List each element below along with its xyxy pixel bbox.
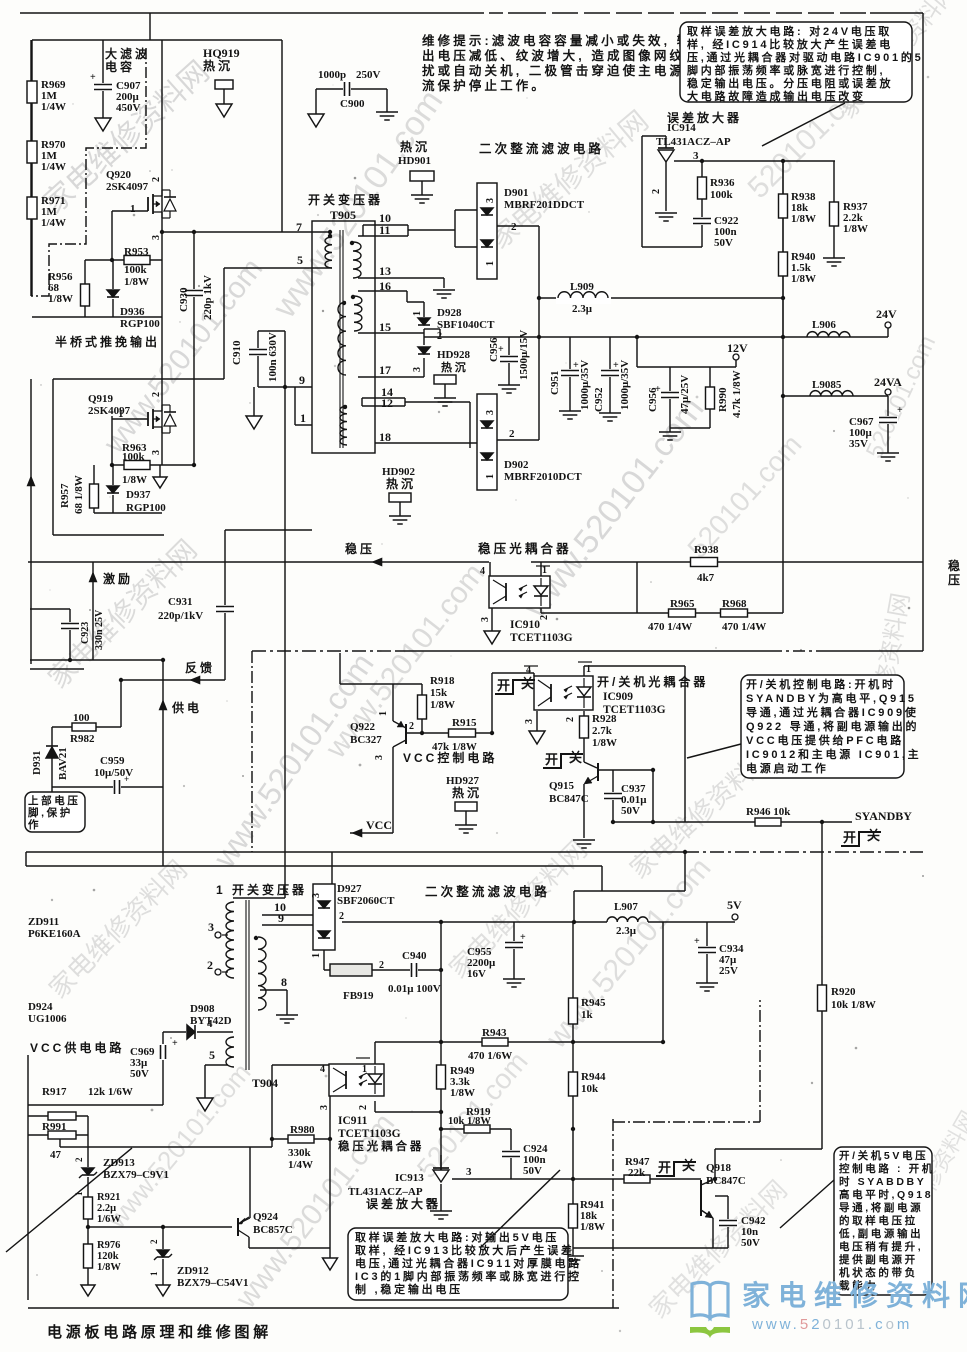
svg-text:www.520101.com: www.520101.com bbox=[539, 852, 717, 1055]
wire C952 column bbox=[609, 337, 611, 413]
svg-text:1/4W: 1/4W bbox=[41, 161, 66, 173]
svg-text:导通,将副电源: 导通,将副电源 bbox=[839, 1201, 923, 1214]
svg-text:C923: C923 bbox=[80, 622, 91, 644]
svg-text:SBF1040CT: SBF1040CT bbox=[437, 319, 495, 331]
wire L906 24V row bbox=[783, 336, 888, 338]
capacitor C956b bbox=[660, 391, 680, 399]
resistor R919 bbox=[464, 1125, 490, 1133]
svg-text:4: 4 bbox=[207, 1018, 213, 1030]
wire IC909 box right x685 bbox=[684, 666, 686, 822]
scan noise speckles bbox=[317, 214, 319, 216]
wire secondary rail y337 bbox=[424, 336, 783, 338]
resistor R920 bbox=[818, 985, 827, 1011]
capacitor C910 bbox=[248, 348, 268, 356]
resistor R947 bbox=[624, 1175, 650, 1183]
wire IC911 pin4 loop bbox=[272, 1064, 330, 1066]
svg-text:1/8W: 1/8W bbox=[843, 223, 868, 235]
svg-text:0.01μ 100V: 0.01μ 100V bbox=[388, 983, 441, 995]
svg-text:上部电压: 上部电压 bbox=[28, 794, 80, 807]
svg-text:1: 1 bbox=[300, 411, 306, 425]
svg-text:R991: R991 bbox=[42, 1121, 66, 1133]
svg-text:8: 8 bbox=[281, 975, 287, 989]
wire D927 pin3 riser bbox=[331, 852, 333, 884]
svg-text:1/6W: 1/6W bbox=[97, 1214, 121, 1225]
svg-text:二次整流滤波电路: 二次整流滤波电路 bbox=[425, 884, 550, 899]
svg-text:1/4W: 1/4W bbox=[41, 101, 66, 113]
svg-text:IC910: IC910 bbox=[510, 619, 540, 631]
resistor R936 bbox=[698, 177, 707, 199]
svg-text:脚内部振荡频率或脉宽进行控制,: 脚内部振荡频率或脉宽进行控制, bbox=[687, 63, 885, 77]
resistor R970 bbox=[27, 141, 37, 163]
svg-text:2: 2 bbox=[151, 392, 162, 397]
wire pin18 row bbox=[375, 442, 477, 444]
svg-text:1/8W: 1/8W bbox=[450, 1087, 475, 1099]
wire R938/R940 column bbox=[782, 161, 784, 337]
svg-text:大电路故障造成输出电压改变: 大电路故障造成输出电压改变 bbox=[687, 89, 866, 103]
svg-text:家电维修资料网: 家电维修资料网 bbox=[742, 1279, 967, 1311]
svg-text:1500μ/15V: 1500μ/15V bbox=[518, 330, 530, 380]
svg-text:D928: D928 bbox=[437, 307, 462, 319]
svg-text:2: 2 bbox=[565, 717, 576, 722]
svg-text:HD901: HD901 bbox=[398, 155, 431, 167]
capacitor C955 bbox=[504, 941, 524, 949]
wire R920 column x822 bbox=[821, 822, 823, 1149]
svg-text:2.3μ: 2.3μ bbox=[616, 925, 637, 937]
wire T904 pin10 row bbox=[262, 914, 313, 916]
capacitor C907 bbox=[93, 83, 113, 91]
wire 供电 column x163 bbox=[162, 660, 164, 866]
wire L909 row y298 bbox=[539, 297, 783, 299]
svg-text:120k: 120k bbox=[97, 1251, 119, 1262]
svg-text:9: 9 bbox=[299, 373, 305, 387]
svg-text:www.520101.com: www.520101.com bbox=[206, 646, 381, 874]
svg-text:220p 1kV: 220p 1kV bbox=[202, 275, 214, 320]
dash-dot boundary top-left bbox=[31, 48, 146, 296]
wire pin9/1 step bbox=[294, 387, 296, 425]
svg-text:稳压光耦合器: 稳压光耦合器 bbox=[478, 541, 572, 556]
svg-text:R921: R921 bbox=[97, 1192, 120, 1203]
svg-text:R945: R945 bbox=[581, 997, 606, 1009]
wire T905 pin5 drop x224 bbox=[223, 268, 225, 379]
wire y891 row bbox=[574, 890, 685, 892]
wire 激励 column x93 bbox=[92, 562, 94, 660]
capacitor C942 bbox=[718, 1219, 738, 1227]
capacitor C931 bbox=[215, 605, 235, 613]
wire C967 column bbox=[887, 396, 889, 453]
svg-text:1/4W: 1/4W bbox=[41, 217, 66, 229]
svg-text:C940: C940 bbox=[402, 950, 427, 962]
heatsink HD927 bbox=[455, 802, 477, 811]
resistor R953 bbox=[124, 256, 150, 265]
svg-text:3: 3 bbox=[311, 893, 322, 898]
wire FB919 row y970 bbox=[324, 969, 441, 971]
diode D902 package bbox=[477, 394, 497, 490]
svg-text:4: 4 bbox=[526, 665, 531, 676]
svg-text:4: 4 bbox=[320, 1064, 325, 1075]
svg-text:3: 3 bbox=[412, 367, 423, 372]
T905 winding pins right: 10/11 step bbox=[363, 224, 408, 226]
svg-text:稳定输出电压。分压电阻或误差放: 稳定输出电压。分压电阻或误差放 bbox=[687, 76, 893, 90]
svg-text:www.520101.com: www.520101.com bbox=[101, 1057, 257, 1234]
diode D901 d1 bbox=[480, 207, 494, 217]
svg-text:VCC供电电路: VCC供电电路 bbox=[30, 1040, 124, 1055]
svg-text:15k: 15k bbox=[430, 687, 448, 699]
svg-text:二次整流滤波电路: 二次整流滤波电路 bbox=[479, 141, 604, 156]
svg-text:BZX79–C54V1: BZX79–C54V1 bbox=[177, 1277, 249, 1289]
transistor Q919 mosfet bbox=[147, 412, 149, 426]
svg-text:+: + bbox=[694, 936, 700, 947]
capacitor C952 bbox=[600, 369, 620, 377]
svg-text:1/8W: 1/8W bbox=[791, 213, 816, 225]
wire C931 column x225 bbox=[224, 530, 226, 680]
wire C969 column bbox=[162, 1032, 164, 1105]
svg-text:1: 1 bbox=[118, 408, 124, 420]
resistor R917 bbox=[48, 1112, 76, 1120]
svg-text:R965: R965 bbox=[670, 598, 695, 610]
svg-text:样, 经IC914比较放大产生误差电: 样, 经IC914比较放大产生误差电 bbox=[687, 37, 893, 51]
svg-text:2.3μ: 2.3μ bbox=[572, 303, 593, 315]
svg-text:13: 13 bbox=[379, 264, 391, 278]
svg-text:制 ,稳定输出电压: 制 ,稳定输出电压 bbox=[355, 1282, 463, 1296]
resistor R937 bbox=[830, 202, 839, 226]
diode D927 d1 bbox=[317, 900, 331, 910]
svg-text:电源板电路原理和维修图解: 电源板电路原理和维修图解 bbox=[47, 1323, 272, 1341]
wire R936 column bbox=[701, 161, 703, 247]
svg-text:47: 47 bbox=[50, 1149, 62, 1161]
wire Q924 collector bbox=[248, 1237, 250, 1248]
svg-text:P6KE160A: P6KE160A bbox=[28, 928, 81, 940]
main section divider line y651 bbox=[252, 650, 395, 652]
svg-text:电压稍有提升,: 电压稍有提升, bbox=[839, 1240, 923, 1253]
svg-text:3: 3 bbox=[485, 410, 496, 415]
svg-text:3: 3 bbox=[208, 920, 214, 934]
wire R918 column bbox=[421, 684, 423, 733]
svg-text:VCC控制电路: VCC控制电路 bbox=[403, 750, 497, 765]
svg-text:误差放大器: 误差放大器 bbox=[667, 110, 742, 125]
svg-text:2.7k: 2.7k bbox=[592, 725, 613, 737]
svg-text:IC913: IC913 bbox=[395, 1172, 424, 1184]
long line y866 bbox=[26, 865, 602, 867]
svg-text:维修提示:滤波电容容量减小或失效, 输: 维修提示:滤波电容容量减小或失效, 输 bbox=[422, 33, 692, 48]
svg-text:35V: 35V bbox=[849, 438, 868, 450]
wire bottom of Q920 cell bbox=[32, 316, 162, 318]
wire IC910 pin2 to y613 bbox=[540, 608, 542, 613]
node A wire y232 Q920 source to T905 pin7 bbox=[162, 231, 330, 233]
wire Q922 collector bbox=[392, 747, 394, 833]
svg-text:BAV21: BAV21 bbox=[57, 747, 69, 780]
svg-text:R918: R918 bbox=[430, 675, 455, 687]
wire y660 row bbox=[30, 659, 163, 661]
svg-text:50V: 50V bbox=[523, 1165, 542, 1177]
arrow 激励 up bbox=[89, 572, 97, 582]
svg-text:IC3的1脚内部振荡频率或脉宽进行控: IC3的1脚内部振荡频率或脉宽进行控 bbox=[355, 1269, 582, 1283]
svg-text:取样误差放大电路:对输出5V电压: 取样误差放大电路:对输出5V电压 bbox=[355, 1230, 559, 1244]
svg-text:电源启动工作: 电源启动工作 bbox=[746, 761, 829, 775]
svg-text:BC847C: BC847C bbox=[706, 1175, 746, 1187]
resistor R943 bbox=[482, 1038, 508, 1046]
wire R945/R944/R941 column x573 bbox=[572, 922, 574, 1256]
svg-text:Q922: Q922 bbox=[350, 721, 376, 733]
svg-text:100k: 100k bbox=[124, 264, 148, 276]
svg-text:2: 2 bbox=[358, 1105, 369, 1110]
svg-text:2: 2 bbox=[149, 1239, 159, 1244]
svg-text:11: 11 bbox=[379, 223, 390, 237]
wire IC910 pin4 drop bbox=[489, 562, 491, 576]
svg-text:+: + bbox=[520, 932, 526, 943]
diode D927 package bbox=[313, 884, 335, 950]
heatsink HD901 bbox=[410, 171, 434, 181]
transistor Q915 npn bbox=[597, 763, 599, 781]
wire D936 column bbox=[112, 260, 114, 317]
svg-text:50V: 50V bbox=[714, 237, 733, 249]
capacitor C930 bbox=[184, 289, 204, 297]
svg-text:2: 2 bbox=[74, 1157, 84, 1162]
svg-text:100k: 100k bbox=[122, 451, 146, 463]
svg-text:5V: 5V bbox=[727, 898, 742, 912]
svg-text:R968: R968 bbox=[722, 598, 747, 610]
svg-text:R980: R980 bbox=[290, 1124, 315, 1136]
svg-text:www.520101.com: www.520101.com bbox=[751, 1316, 912, 1333]
wire 24VA row y396 bbox=[783, 395, 888, 397]
svg-text:时 SYABDBY: 时 SYABDBY bbox=[839, 1175, 926, 1188]
capacitor C937 bbox=[603, 792, 623, 800]
svg-text:R946 10k: R946 10k bbox=[746, 806, 791, 818]
wire x783 drop 562-613 bbox=[782, 562, 784, 613]
wire IC909 pin1 up bbox=[583, 666, 585, 676]
svg-text:L907: L907 bbox=[614, 901, 638, 913]
tip box 5V error amp bbox=[348, 1228, 568, 1300]
arrow 供电 up bbox=[159, 700, 167, 710]
wire SYANDBY row y822 bbox=[613, 821, 852, 823]
resistor R982 bbox=[72, 723, 96, 731]
pointer line tip4 bbox=[480, 1170, 560, 1248]
svg-text:D931: D931 bbox=[31, 751, 43, 775]
wire Q919 gate bbox=[112, 418, 148, 420]
wire R928 column bbox=[583, 711, 585, 762]
wire T905 pin9 row y387 bbox=[258, 386, 312, 388]
svg-text:450V: 450V bbox=[116, 102, 141, 114]
svg-text:15: 15 bbox=[379, 320, 391, 334]
svg-text:1k: 1k bbox=[581, 1009, 594, 1021]
svg-text:开: 开 bbox=[545, 752, 561, 767]
svg-text:激励: 激励 bbox=[103, 571, 133, 586]
svg-text:关: 关 bbox=[569, 750, 585, 765]
svg-text:50V: 50V bbox=[741, 1237, 760, 1249]
svg-text:热沉: 热沉 bbox=[400, 139, 430, 154]
capacitor C900 bbox=[343, 81, 351, 97]
wire y669 row bbox=[30, 668, 84, 670]
resistor R941 bbox=[569, 1204, 578, 1228]
wire 5V rail y922 bbox=[342, 921, 607, 923]
tip box on/off control bbox=[741, 675, 904, 778]
terminal 12V bbox=[733, 354, 739, 360]
wire D928 out to rail bbox=[424, 328, 440, 330]
wire IC914 cathode bar loop bbox=[641, 136, 643, 247]
junction dots bbox=[110, 258, 114, 262]
resistor R990 bbox=[706, 387, 715, 409]
long line y852 primary-secondary boundary bbox=[26, 851, 685, 853]
svg-text:RGP100: RGP100 bbox=[120, 318, 160, 330]
svg-text:FB919: FB919 bbox=[343, 990, 374, 1002]
svg-text:100k: 100k bbox=[710, 189, 734, 201]
svg-text:流保护停止工作。: 流保护停止工作。 bbox=[422, 78, 547, 93]
diode D937 bbox=[106, 485, 120, 495]
wire IC911 pin2 drop bbox=[374, 1101, 376, 1112]
transistor Q924 pnp bbox=[237, 1218, 239, 1236]
wire x663 riser bbox=[662, 922, 664, 1042]
wire box around half-bridge lower bbox=[53, 378, 224, 380]
wire T904 pin9 row bbox=[262, 924, 313, 926]
wire IC909 pin4 top bbox=[533, 673, 535, 676]
arrow under Q919 bbox=[153, 477, 167, 488]
svg-text:R944: R944 bbox=[581, 1071, 606, 1083]
pointer line tip2 bbox=[762, 103, 845, 146]
wire D927 column bbox=[323, 950, 325, 970]
capacitor C967 bbox=[878, 416, 898, 424]
wire top border to rail bbox=[149, 13, 151, 40]
svg-text:17: 17 bbox=[379, 363, 391, 377]
svg-text:UG1006: UG1006 bbox=[28, 1013, 67, 1025]
wire x783 column bbox=[782, 161, 784, 562]
svg-text:稳压: 稳压 bbox=[345, 541, 375, 556]
svg-text:2.2μ: 2.2μ bbox=[97, 1203, 116, 1214]
wire IC911 pin1 riser bbox=[374, 1042, 376, 1067]
svg-text:Q915: Q915 bbox=[549, 780, 575, 792]
diode D901 d2 bbox=[480, 239, 494, 249]
wire ref line y161 bbox=[674, 160, 835, 162]
wire 反馈 line y680 bbox=[121, 679, 225, 681]
svg-text:HD928: HD928 bbox=[437, 349, 471, 361]
T905 winding S1 bbox=[353, 242, 361, 278]
svg-text:24VA: 24VA bbox=[874, 375, 902, 389]
resistor R938b 4k7 bbox=[691, 558, 718, 567]
wire ZD912 column x163 bbox=[162, 1227, 164, 1285]
svg-text:5: 5 bbox=[297, 253, 303, 267]
capacitor C956a bbox=[499, 355, 519, 363]
inductor L909 bbox=[556, 292, 611, 304]
svg-text:2: 2 bbox=[509, 428, 515, 440]
svg-text:5: 5 bbox=[209, 1048, 215, 1062]
svg-text:提供副电源开: 提供副电源开 bbox=[839, 1253, 918, 1266]
svg-text:2: 2 bbox=[151, 177, 162, 182]
svg-text:压: 压 bbox=[948, 573, 963, 587]
svg-text:1: 1 bbox=[149, 1271, 159, 1276]
svg-text:1 开关变压器: 1 开关变压器 bbox=[216, 882, 307, 897]
svg-text:开/关机5V电压: 开/关机5V电压 bbox=[839, 1149, 928, 1162]
wire feedback drop x121 bbox=[120, 680, 122, 727]
svg-text:2SK4097: 2SK4097 bbox=[106, 181, 149, 193]
svg-text:SYANDBY为高电平,Q915: SYANDBY为高电平,Q915 bbox=[746, 691, 917, 705]
svg-text:出电压减低、纹波增大, 造成图像网纹干: 出电压减低、纹波增大, 造成图像网纹干 bbox=[422, 48, 701, 63]
svg-text:22k: 22k bbox=[628, 1167, 646, 1179]
svg-text:220p/1kV: 220p/1kV bbox=[158, 610, 203, 622]
wire Q919 drain-source x162 bbox=[161, 232, 163, 465]
svg-text:压,通过光耦合器对驱动电路IC901的5: 压,通过光耦合器对驱动电路IC901的5 bbox=[687, 50, 924, 64]
svg-text:D908: D908 bbox=[190, 1003, 215, 1015]
svg-text:3: 3 bbox=[374, 755, 385, 760]
wire y1105 row bbox=[28, 1104, 163, 1106]
wire C942 stub bbox=[715, 1195, 728, 1197]
svg-text:T905: T905 bbox=[330, 208, 356, 222]
svg-text:+: + bbox=[172, 1038, 178, 1049]
svg-text:T904: T904 bbox=[252, 1076, 278, 1090]
svg-text:R953: R953 bbox=[124, 246, 149, 258]
wire IC909 pin3 gnd bbox=[536, 711, 538, 731]
amp IC913 bbox=[433, 1167, 449, 1169]
wire D937 column bbox=[112, 465, 114, 513]
resistor R965 bbox=[669, 609, 696, 617]
svg-text:R938: R938 bbox=[694, 544, 719, 556]
svg-text:330k: 330k bbox=[288, 1147, 312, 1159]
wire C959 row y787 bbox=[52, 786, 163, 788]
wire C930 column bbox=[193, 232, 195, 465]
T905 core box bbox=[312, 221, 375, 453]
ground R937 bbox=[823, 257, 845, 259]
svg-text:1/8W: 1/8W bbox=[122, 474, 147, 486]
ground IC913 bbox=[430, 1210, 452, 1212]
svg-text:BC857C: BC857C bbox=[253, 1224, 293, 1236]
wire R957 column bbox=[93, 465, 95, 513]
svg-text:3: 3 bbox=[693, 150, 699, 162]
wire R980 row y1139 bbox=[272, 1138, 330, 1140]
diode D936 bbox=[106, 289, 120, 299]
optocoupler IC909 bbox=[534, 676, 593, 710]
callout upper voltage pin box bbox=[25, 792, 85, 832]
svg-text:R917: R917 bbox=[42, 1086, 67, 1098]
svg-text:50V: 50V bbox=[130, 1068, 149, 1080]
svg-text:1/4W: 1/4W bbox=[288, 1159, 313, 1171]
svg-text:D927: D927 bbox=[337, 883, 362, 895]
svg-text:BC327: BC327 bbox=[350, 734, 382, 746]
resistor R963 bbox=[124, 461, 150, 470]
svg-text:D901: D901 bbox=[504, 187, 528, 199]
resistor R956 bbox=[81, 284, 90, 306]
wire C922 return y247 bbox=[642, 246, 702, 248]
wire IC914 anode to ground bbox=[665, 136, 667, 148]
svg-text:反馈: 反馈 bbox=[185, 660, 215, 675]
wire R965/R968 row y613 bbox=[541, 612, 783, 614]
ground Q915 bbox=[573, 839, 595, 841]
svg-text:关: 关 bbox=[521, 676, 537, 691]
svg-text:供电: 供电 bbox=[171, 700, 202, 715]
capacitor C951 bbox=[560, 369, 580, 377]
wire C956a column bbox=[508, 337, 510, 385]
svg-text:50V: 50V bbox=[621, 805, 640, 817]
wire IC913 ref row y1179 bbox=[452, 1178, 701, 1180]
ground arrow R976 bbox=[81, 1285, 95, 1296]
heatsink HD928 bbox=[434, 375, 456, 384]
svg-text:9: 9 bbox=[278, 911, 284, 925]
svg-text:1: 1 bbox=[485, 474, 496, 479]
svg-text:ZD913: ZD913 bbox=[103, 1157, 135, 1169]
svg-text:C910: C910 bbox=[231, 340, 243, 365]
svg-text:低,副电源输出: 低,副电源输出 bbox=[838, 1227, 923, 1240]
T905 winding S2 bbox=[354, 296, 362, 331]
svg-text:10k 1/8W: 10k 1/8W bbox=[831, 999, 876, 1011]
svg-text:3: 3 bbox=[485, 198, 496, 203]
svg-text:Q924: Q924 bbox=[253, 1211, 279, 1223]
svg-text:1000μ/35V: 1000μ/35V bbox=[619, 360, 631, 410]
svg-text:开: 开 bbox=[658, 1160, 674, 1175]
wire D928 column x424 bbox=[423, 302, 425, 318]
wire y530 feedback row bbox=[225, 529, 312, 531]
optocoupler IC910 bbox=[489, 576, 550, 608]
ferrite bead FB919 bbox=[330, 964, 372, 976]
svg-text:IC911: IC911 bbox=[338, 1115, 368, 1127]
svg-text:ZD912: ZD912 bbox=[177, 1265, 209, 1277]
svg-text:HQ919: HQ919 bbox=[203, 46, 240, 60]
svg-text:2: 2 bbox=[437, 331, 442, 342]
